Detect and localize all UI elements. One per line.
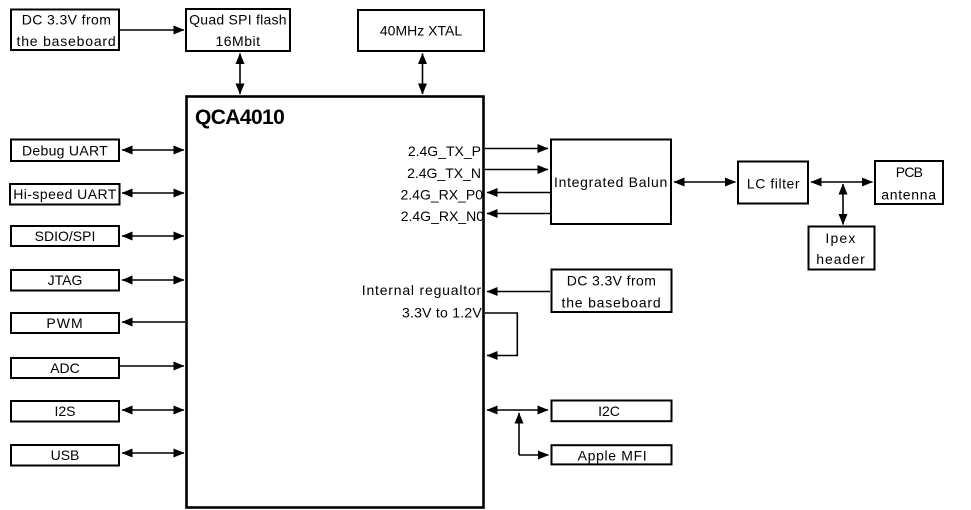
block: USB bbox=[11, 445, 119, 466]
svg-text:16Mbit: 16Mbit bbox=[215, 33, 260, 49]
svg-text:JTAG: JTAG bbox=[48, 272, 83, 288]
pin label 2.4G_RX_N0 bbox=[401, 208, 484, 224]
wire: Integrated Balun to 2.4G_RX_N0 bbox=[487, 213, 550, 215]
wire: 2.4G_TX_P to Integrated Balun bbox=[485, 148, 548, 150]
pin label 3.3V to 1.2V bbox=[402, 305, 482, 321]
block: DC 3.3V from the baseboard (right) bbox=[552, 270, 672, 313]
svg-text:Debug UART: Debug UART bbox=[22, 143, 108, 159]
block: Apple MFI bbox=[552, 445, 672, 464]
wire: LC filter to PCB antenna (bidirectional) bbox=[811, 181, 873, 183]
svg-text:LC filter: LC filter bbox=[747, 176, 800, 192]
wire: QCA4010 to PWM (output) bbox=[122, 321, 185, 323]
block: I2C bbox=[552, 401, 672, 422]
svg-text:40MHz XTAL: 40MHz XTAL bbox=[380, 23, 462, 39]
block: Debug UART bbox=[11, 140, 119, 162]
svg-text:DC 3.3V from: DC 3.3V from bbox=[22, 12, 112, 28]
svg-text:Ipex: Ipex bbox=[825, 230, 856, 246]
wire: Quad SPI flash to QCA4010 (bidirectional) bbox=[239, 54, 241, 95]
wire: 2.4G_TX_N to Integrated Balun bbox=[485, 169, 548, 171]
svg-text:Quad SPI flash: Quad SPI flash bbox=[189, 12, 287, 28]
svg-text:Hi-speed UART: Hi-speed UART bbox=[13, 186, 117, 202]
wire: Hi-speed UART to QCA4010 (bidirectional) bbox=[122, 192, 184, 194]
block: ADC bbox=[11, 358, 119, 378]
wire: USB to QCA4010 (bidirectional) bbox=[122, 452, 184, 454]
wire: SDIO/SPI to QCA4010 (bidirectional) bbox=[122, 235, 184, 237]
wire: ADC to QCA4010 (input) bbox=[120, 365, 184, 367]
pin label 2.4G_RX_P0 bbox=[401, 187, 484, 203]
block: SDIO/SPI bbox=[11, 226, 119, 246]
svg-text:2.4G_RX_P0: 2.4G_RX_P0 bbox=[401, 187, 484, 203]
pin label 2.4G_TX_P bbox=[408, 143, 481, 159]
svg-text:I2S: I2S bbox=[54, 403, 75, 419]
svg-text:USB: USB bbox=[51, 447, 80, 463]
wire: I2S to QCA4010 (bidirectional) bbox=[122, 409, 184, 411]
svg-text:the baseboard: the baseboard bbox=[562, 295, 662, 311]
svg-text:2.4G_TX_P: 2.4G_TX_P bbox=[408, 143, 481, 159]
pin label Internal regualtor bbox=[362, 282, 482, 298]
block: Ipex header bbox=[809, 227, 875, 270]
svg-text:Integrated Balun: Integrated Balun bbox=[554, 174, 668, 190]
block: Quad SPI flash 16Mbit bbox=[186, 9, 290, 51]
svg-text:antenna: antenna bbox=[881, 187, 937, 203]
wire: JTAG to QCA4010 (bidirectional) bbox=[122, 279, 184, 281]
wire: branch to Apple MFI bbox=[519, 454, 549, 456]
wire: regulator loop 3.3V to 1.2V feedback bbox=[485, 313, 517, 356]
svg-text:QCA4010: QCA4010 bbox=[195, 106, 284, 129]
svg-text:Apple MFI: Apple MFI bbox=[578, 448, 648, 464]
svg-text:PCB: PCB bbox=[896, 164, 923, 180]
svg-text:the baseboard: the baseboard bbox=[17, 33, 117, 49]
svg-text:I2C: I2C bbox=[598, 403, 620, 419]
pin label 2.4G_TX_N bbox=[407, 165, 481, 181]
svg-text:2.4G_TX_N: 2.4G_TX_N bbox=[407, 165, 481, 181]
wire: DC 3.3V baseboard to Quad SPI flash bbox=[120, 29, 184, 31]
block: QCA4010 main SoC bbox=[187, 97, 484, 508]
wire: antenna feed line to Ipex header (bidirectional) bbox=[842, 184, 844, 225]
wire: branch junction up-arrow to I2C bus bbox=[518, 413, 520, 455]
block: PCB antenna bbox=[875, 161, 943, 204]
wire: Debug UART to QCA4010 (bidirectional) bbox=[122, 149, 184, 151]
wire: QCA4010 to I2C (bidirectional) bbox=[487, 409, 548, 411]
wire: Integrated Balun to LC filter (bidirectional) bbox=[674, 181, 736, 183]
block: DC 3.3V from the baseboard (top-left) bbox=[11, 10, 119, 51]
svg-text:DC 3.3V from: DC 3.3V from bbox=[567, 273, 657, 289]
block: I2S bbox=[11, 401, 119, 422]
block: Integrated Balun bbox=[551, 140, 671, 225]
svg-text:Internal regualtor: Internal regualtor bbox=[362, 282, 482, 298]
block: PWM bbox=[11, 313, 119, 333]
block: Hi-speed UART bbox=[10, 184, 120, 205]
svg-text:header: header bbox=[816, 251, 866, 267]
wire: Integrated Balun to 2.4G_RX_P0 bbox=[487, 192, 550, 194]
svg-text:2.4G_RX_N0: 2.4G_RX_N0 bbox=[401, 208, 484, 224]
block: 40MHz XTAL bbox=[358, 10, 484, 51]
block: LC filter bbox=[738, 162, 808, 204]
svg-text:PWM: PWM bbox=[46, 315, 83, 331]
svg-text:SDIO/SPI: SDIO/SPI bbox=[35, 228, 96, 244]
wire: 40MHz XTAL to QCA4010 (bidirectional) bbox=[422, 54, 424, 95]
block: JTAG bbox=[11, 270, 119, 291]
svg-text:ADC: ADC bbox=[50, 360, 80, 376]
wire: DC 3.3V (right) to QCA4010 internal regulator bbox=[487, 291, 550, 293]
svg-text:3.3V to 1.2V: 3.3V to 1.2V bbox=[402, 305, 482, 321]
